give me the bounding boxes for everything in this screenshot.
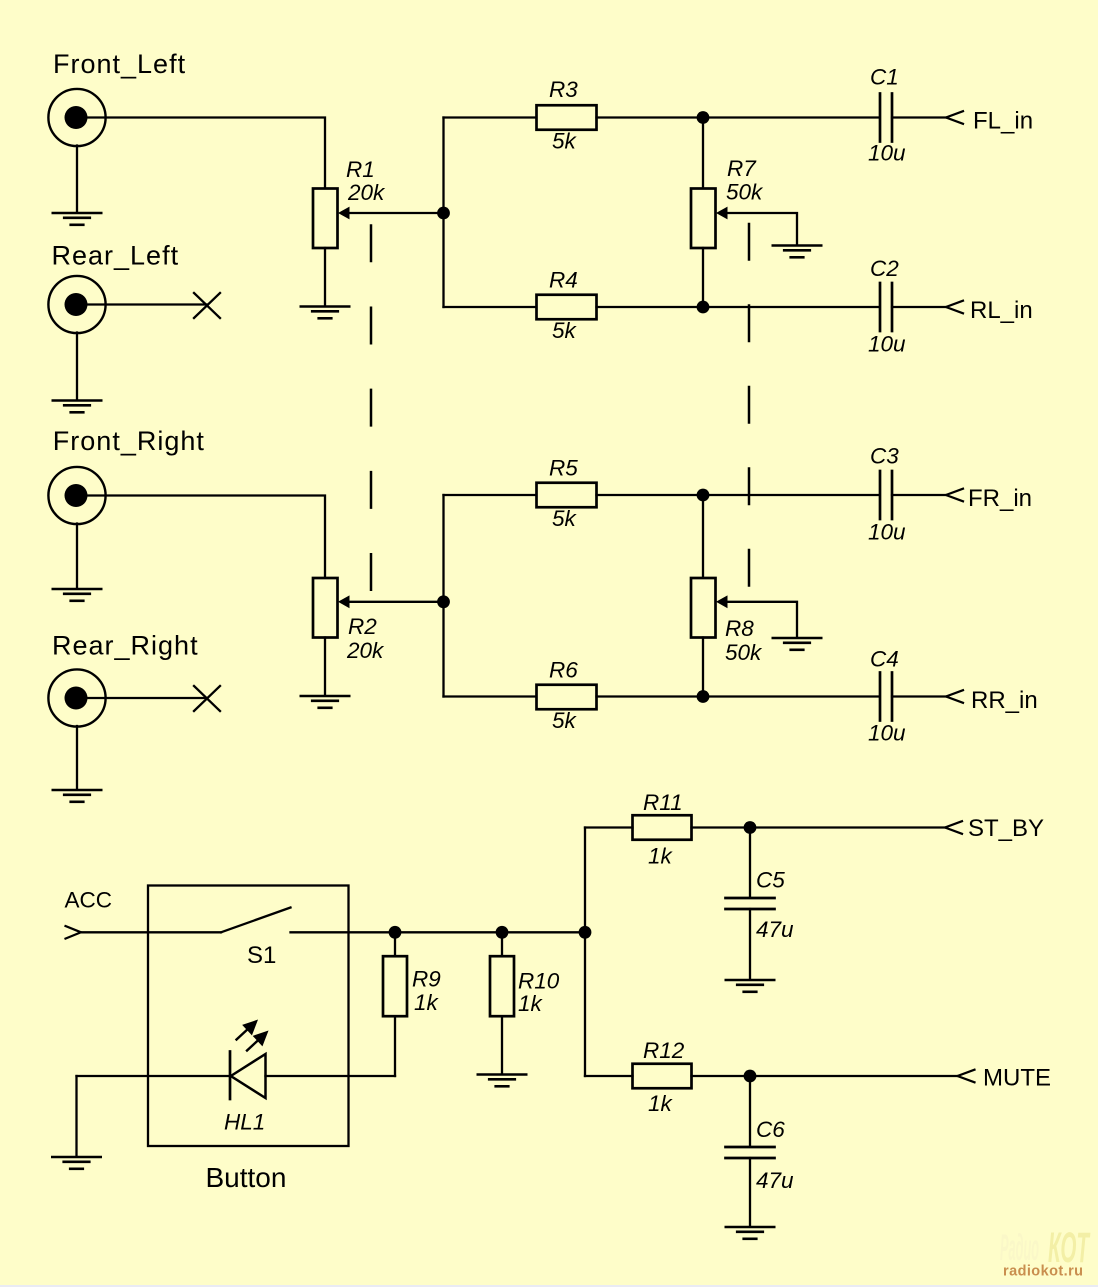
- wire R6 to C4: [597, 695, 880, 697]
- wire right column to R12: [585, 1075, 633, 1077]
- svg-text:5k: 5k: [552, 129, 578, 154]
- ground HL1 left: [52, 1157, 100, 1169]
- mechanical coupling dashed line R1-R2: [370, 226, 373, 591]
- resistor R10 body: [490, 956, 514, 1016]
- ground R7 wiper: [773, 246, 821, 258]
- svg-text:1k: 1k: [648, 1091, 674, 1116]
- svg-text:S1: S1: [247, 942, 276, 969]
- wire C5 bottom to ground: [749, 909, 751, 979]
- LED HL1 triangle: [231, 1054, 266, 1098]
- wire R1 wiper to node A1: [343, 212, 444, 214]
- wire LED cathode to left: [77, 1075, 231, 1077]
- wire R9 top stub: [394, 932, 396, 956]
- svg-text:R4: R4: [549, 268, 578, 293]
- svg-text:R12: R12: [643, 1038, 685, 1063]
- svg-text:R6: R6: [549, 658, 578, 683]
- svg-text:R2: R2: [348, 614, 377, 639]
- R8 wiper arrowhead: [716, 595, 728, 608]
- FL_in output arrow: [946, 111, 963, 124]
- resistor R3 body: [537, 105, 597, 130]
- ground RL connector: [53, 401, 101, 413]
- svg-text:RR_in: RR_in: [971, 687, 1038, 714]
- wire R4 to C2: [597, 306, 880, 308]
- capacitor C2: [880, 283, 892, 331]
- no-connect X mark RR: [194, 686, 220, 711]
- wire vertical bus A (FL row to RL row): [442, 118, 444, 308]
- node B4 junction dot: [697, 690, 710, 703]
- node B1 junction dot: [697, 111, 710, 124]
- svg-text:MUTE: MUTE: [983, 1065, 1051, 1092]
- svg-text:10u: 10u: [868, 721, 906, 746]
- node junction dot at R9 top: [389, 926, 402, 939]
- wire C3 to FR_in arrow: [892, 494, 946, 496]
- resistor R4 body: [537, 295, 597, 320]
- node A1 junction dot: [437, 207, 450, 220]
- wire R3 to C1: [597, 116, 880, 118]
- ACC input arrow: [66, 926, 82, 939]
- potentiometer R8 body: [691, 578, 716, 638]
- resistor R6 body: [537, 685, 597, 710]
- svg-text:1k: 1k: [518, 991, 544, 1016]
- node junction dot at R10 top: [496, 926, 509, 939]
- LED HL1 emission arrow 2: [247, 1033, 267, 1051]
- svg-text:R9: R9: [412, 967, 441, 992]
- svg-text:Rear_Left: Rear_Left: [52, 241, 180, 271]
- wire C6 top: [749, 1076, 751, 1146]
- wire A to R5: [444, 494, 537, 496]
- wire LED anode to R9 bottom: [266, 1075, 396, 1077]
- ground C6: [726, 1227, 774, 1239]
- wire RR connector to no-connect: [87, 697, 207, 699]
- node junction dot C6 top: [744, 1070, 757, 1083]
- wire C2 to RL_in arrow: [892, 306, 946, 308]
- wire C4 to RR_in arrow: [892, 695, 946, 697]
- bottom edge strip: [0, 1285, 1098, 1287]
- svg-text:1k: 1k: [414, 990, 440, 1015]
- wire R9 bottom to LED row: [394, 1016, 396, 1076]
- svg-text:20k: 20k: [347, 180, 386, 205]
- svg-text:FR_in: FR_in: [968, 485, 1032, 512]
- RL_in output arrow: [946, 301, 963, 314]
- wire A to R6: [444, 695, 537, 697]
- svg-text:Button: Button: [206, 1162, 287, 1193]
- svg-text:50k: 50k: [725, 640, 763, 665]
- wire R2 bottom to ground: [324, 638, 326, 696]
- svg-text:HL1: HL1: [224, 1110, 265, 1135]
- node A2 junction dot: [437, 595, 450, 608]
- wire R5 to C3: [597, 494, 880, 496]
- wire switch contact to right column: [291, 931, 586, 933]
- svg-text:10u: 10u: [868, 332, 906, 357]
- wire vertical bus A (FR row to RR row): [442, 495, 444, 697]
- svg-text:R7: R7: [727, 156, 757, 181]
- svg-text:C5: C5: [756, 868, 785, 893]
- svg-text:radiokot.ru: radiokot.ru: [1003, 1264, 1083, 1280]
- wire B1 to R7 top: [702, 118, 704, 189]
- connector X1 Front_Left RCA: [48, 89, 105, 146]
- svg-text:Rear_Right: Rear_Right: [52, 631, 199, 661]
- ground R10: [478, 1075, 526, 1087]
- svg-text:ACC: ACC: [65, 888, 113, 913]
- R7 wiper arrowhead: [716, 207, 728, 220]
- wire RL connector to ground: [76, 333, 78, 400]
- svg-text:C2: C2: [870, 256, 899, 281]
- wire R10 top stub: [501, 932, 503, 956]
- button enclosure box: [148, 886, 349, 1147]
- wire FL connector to R1 top: [87, 118, 325, 189]
- svg-text:C3: C3: [870, 444, 899, 469]
- svg-text:R3: R3: [549, 77, 578, 102]
- capacitor C4: [880, 673, 892, 721]
- svg-text:ST_BY: ST_BY: [968, 815, 1044, 842]
- wire R8 wiper to ground: [721, 602, 797, 637]
- svg-text:47u: 47u: [756, 917, 794, 942]
- wire FL connector to ground: [76, 146, 78, 213]
- ground FR connector: [53, 589, 101, 601]
- wire A to R3: [444, 116, 537, 118]
- potentiometer R1 body: [313, 189, 338, 249]
- svg-text:RL_in: RL_in: [970, 297, 1033, 324]
- resistor R11 body: [633, 815, 692, 840]
- MUTE output arrow: [958, 1070, 975, 1083]
- RR_in output arrow: [946, 690, 963, 703]
- svg-text:R5: R5: [549, 456, 578, 481]
- watermark Radio KOT: [1000, 1224, 1091, 1280]
- svg-text:Front_Left: Front_Left: [53, 49, 186, 79]
- svg-text:Радио: Радио: [1000, 1227, 1039, 1268]
- resistor R12 body: [633, 1064, 692, 1089]
- ground C5: [726, 980, 774, 992]
- svg-text:5k: 5k: [552, 708, 578, 733]
- node junction dot C5 top: [744, 821, 757, 834]
- wire R11 to ST_BY arrow: [692, 826, 946, 828]
- svg-text:FL_in: FL_in: [973, 108, 1033, 135]
- svg-text:Front_Right: Front_Right: [53, 426, 205, 456]
- svg-text:R1: R1: [346, 157, 375, 182]
- svg-text:47u: 47u: [756, 1168, 794, 1193]
- svg-text:C6: C6: [756, 1117, 785, 1142]
- R2 wiper arrowhead: [338, 595, 350, 608]
- wire RL connector to no-connect: [87, 303, 207, 305]
- node B2 junction dot: [697, 301, 710, 314]
- svg-text:10u: 10u: [868, 520, 906, 545]
- switch S1 blade: [221, 908, 291, 933]
- wire right column to R11: [585, 826, 633, 828]
- ST_BY output arrow: [945, 821, 962, 834]
- wire R2 wiper to node A2: [343, 601, 444, 603]
- svg-text:R8: R8: [725, 616, 754, 641]
- LED HL1 emission arrow 1: [237, 1022, 257, 1040]
- svg-text:10u: 10u: [868, 141, 906, 166]
- svg-text:C4: C4: [870, 647, 899, 672]
- potentiometer R7 body: [691, 189, 716, 249]
- ground R8 wiper: [773, 638, 821, 650]
- capacitor C3: [880, 471, 892, 519]
- wire C1 to FL_in arrow: [892, 116, 946, 118]
- wire R12 to MUTE arrow: [692, 1075, 958, 1077]
- capacitor C6: [726, 1147, 775, 1158]
- connector X3 Front_Right RCA: [48, 467, 105, 524]
- wire A to R4: [444, 306, 537, 308]
- connector X4 Rear_Right RCA: [48, 669, 105, 726]
- wire RR connector to ground: [76, 726, 78, 789]
- wire R10 bottom to ground: [501, 1016, 503, 1073]
- capacitor C1: [880, 94, 892, 142]
- connector X2 Rear_Left RCA: [48, 276, 105, 333]
- svg-text:R11: R11: [643, 790, 683, 815]
- svg-text:5k: 5k: [552, 506, 578, 531]
- LED HL1 cathode bar: [229, 1052, 232, 1100]
- R1 wiper arrowhead: [338, 207, 350, 220]
- no-connect X mark RL: [194, 293, 220, 318]
- svg-text:C1: C1: [870, 65, 899, 90]
- wire C6 bottom to ground: [749, 1158, 751, 1226]
- wire B3 to R8 top: [702, 495, 704, 578]
- node B3 junction dot: [697, 489, 710, 502]
- wire R8 bottom to B4: [702, 638, 704, 697]
- resistor R5 body: [537, 483, 597, 508]
- FR_in output arrow: [946, 489, 963, 502]
- node junction dot at right column: [579, 926, 592, 939]
- wire left down to ground: [75, 1076, 77, 1156]
- wire R7 bottom to B2: [702, 248, 704, 307]
- wire right column vertical: [584, 828, 586, 1077]
- svg-text:R10: R10: [518, 969, 560, 994]
- svg-text:20k: 20k: [346, 638, 385, 663]
- ground R1: [301, 307, 349, 319]
- wire FR connector to ground: [76, 524, 78, 589]
- svg-text:1k: 1k: [648, 844, 674, 869]
- wire C5 top: [749, 828, 751, 898]
- svg-text:50k: 50k: [726, 180, 764, 205]
- ground R2: [301, 696, 349, 708]
- wire ACC to switch pivot: [81, 931, 221, 933]
- ground FL connector: [53, 213, 101, 225]
- resistor R9 body: [383, 956, 407, 1016]
- svg-text:5k: 5k: [552, 318, 578, 343]
- wire FR connector to R2 top: [87, 496, 325, 578]
- potentiometer R2 body: [313, 578, 338, 638]
- wire R7 wiper to ground: [721, 213, 797, 245]
- capacitor C5: [726, 898, 775, 909]
- mechanical coupling dashed line R7-R8: [748, 224, 751, 586]
- wire R1 bottom to ground: [324, 248, 326, 306]
- ground RR connector: [53, 790, 101, 802]
